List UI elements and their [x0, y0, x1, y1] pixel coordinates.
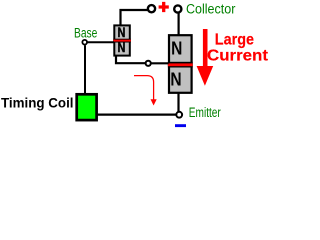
svg-text:N: N	[171, 38, 182, 59]
wire: collector terminal to big junction top	[178, 13, 180, 35]
svg-text:N: N	[117, 40, 125, 56]
wire: small junction bottom to base junction node	[116, 56, 145, 63]
node: base terminal	[82, 40, 87, 45]
red arrow: large current	[197, 29, 214, 86]
svg-text:Current: Current	[207, 47, 269, 64]
battery plus sign	[159, 2, 169, 12]
node: collector terminal circle	[174, 5, 181, 12]
timing coil component	[77, 94, 97, 120]
node: emitter terminal	[176, 112, 182, 118]
red curved arrow: small base current	[134, 76, 157, 106]
transistor body: big junction block	[168, 35, 193, 93]
svg-text:N: N	[170, 69, 181, 90]
svg-text:N: N	[117, 25, 125, 41]
svg-text:Base: Base	[74, 26, 97, 41]
node: junction between base wire and big block	[146, 61, 151, 66]
wire: base node to small junction	[88, 41, 115, 43]
wire: small junction top to positive terminal	[121, 10, 148, 26]
svg-text:Large: Large	[215, 32, 254, 49]
wire: base node down to timing coil	[84, 45, 86, 94]
wire: big junction bottom to emitter node	[177, 93, 179, 112]
svg-text:Timing Coil: Timing Coil	[1, 95, 74, 111]
blue marker under emitter	[175, 124, 186, 127]
node: battery + left terminal	[148, 5, 155, 12]
wire: timing coil to emitter node	[97, 113, 176, 115]
svg-text:Emitter: Emitter	[189, 105, 221, 120]
svg-text:Collector: Collector	[186, 1, 236, 16]
small junction block	[113, 25, 131, 55]
wire: junction node to big block divider	[152, 62, 169, 64]
